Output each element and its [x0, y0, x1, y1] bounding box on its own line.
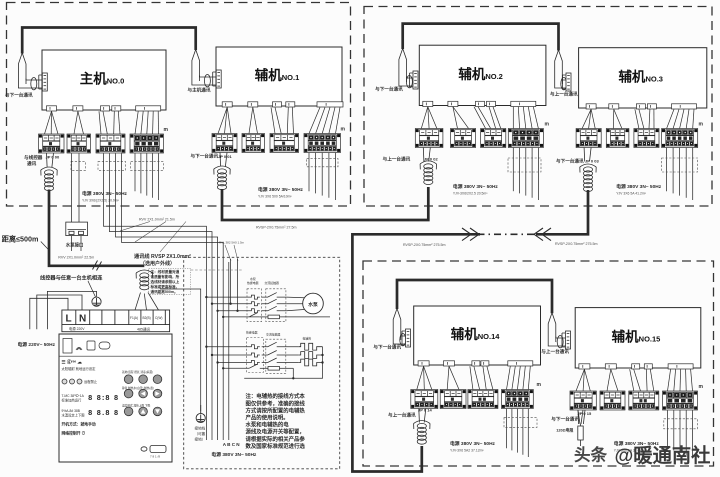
wire loop of NO.0 — [31, 78, 37, 90]
svg-text:m: m — [537, 382, 542, 388]
svg-text:RVV 2X1.0mm² 21.5m: RVV 2X1.0mm² 21.5m — [139, 217, 175, 221]
wires to power block of NO.2 — [512, 107, 514, 129]
stub connector 5 of NO.3 — [672, 104, 697, 109]
terminal block TB1 of NO.3 — [576, 129, 601, 148]
comm plug of NO.14 — [402, 329, 411, 347]
cable funnel of NO.15 — [548, 313, 556, 342]
comm block tail wires of NO.15 — [578, 410, 585, 424]
svg-text:请根据实际的相关产品参: 请根据实际的相关产品参 — [246, 435, 306, 443]
comm pair wire b of NO.3 — [562, 79, 566, 81]
stub connector 2 of NO.0 — [73, 106, 83, 111]
stub connector 1 of NO.14 — [418, 361, 429, 366]
svg-text:YJV-3X6 5A2 37.12m²: YJV-3X6 5A2 37.12m² — [450, 448, 484, 452]
terminal block TB2 of NO.2 — [451, 129, 476, 148]
svg-text:JP 0 01: JP 0 01 — [218, 154, 232, 159]
svg-text:水泵: 水泵 — [307, 301, 318, 308]
svg-text:方式请按所配置的电辅热: 方式请按所配置的电辅热 — [246, 406, 306, 414]
terminal block TB1 of NO.2 — [415, 129, 443, 148]
svg-text:L: L — [66, 314, 72, 325]
comm pair wire b of NO.0 — [26, 79, 42, 81]
terminal block TB3 of NO.1 — [270, 134, 299, 153]
fan-out wires to comm block of NO.14 — [417, 366, 424, 389]
wires to block3 of NO.3 — [635, 109, 639, 128]
controller terminal strip — [62, 310, 170, 332]
terminal block TB1 of NO.1 — [212, 134, 237, 153]
comm pair wire a of NO.3 — [555, 84, 566, 88]
svg-text:120Ω电阻: 120Ω电阻 — [556, 427, 573, 432]
svg-text:接地线: 接地线 — [195, 426, 206, 431]
svg-text:JP 0 15: JP 0 15 — [578, 411, 592, 416]
stub connector 3 of NO.0 — [101, 106, 110, 111]
svg-text:与下一台通讯: 与下一台通讯 — [551, 416, 579, 423]
shielded cable coil of NO.2 — [420, 161, 436, 185]
pass-through under NO.3 TB4 — [662, 158, 698, 172]
pump motor circle — [303, 293, 324, 314]
controller supply wire PE — [47, 291, 96, 329]
terminal block TB3 of NO.14 — [468, 390, 498, 409]
svg-text:网络控制开 ⊙: 网络控制开 ⊙ — [62, 430, 86, 435]
terminal block TB3 of NO.15 — [629, 391, 659, 410]
svg-text:电源 380V 3N~ 50Hz: 电源 380V 3N~ 50Hz — [453, 183, 499, 190]
stub connector 1 of NO.3 — [586, 104, 596, 109]
svg-text:B2(B): B2(B) — [143, 316, 151, 320]
fan-out wires to comm block of NO.2 — [421, 107, 428, 129]
svg-text:7 8 1 /8: 7 8 1 /8 — [150, 455, 160, 459]
fan-out wires to block2 of NO.2 — [453, 107, 458, 129]
controller display windows — [59, 339, 172, 357]
svg-text:水泵: 水泵 — [250, 276, 256, 281]
stub connector 3 of NO.15 — [632, 364, 640, 369]
svg-text:就地/远程 增氧 消毒(杀菌): 就地/远程 增氧 消毒(杀菌) — [122, 370, 153, 374]
svg-text:温度模式 加热上限 下限: 温度模式 加热上限 下限 — [122, 404, 151, 408]
arrow down glyph — [155, 409, 160, 413]
stub connector 4 of NO.2 — [487, 101, 496, 106]
comm block tail wires of NO.3 — [584, 148, 591, 162]
svg-text:RVSP-2X0.75mm² 275.5m: RVSP-2X0.75mm² 275.5m — [555, 242, 597, 246]
fan-out wires to block2 of NO.3 — [612, 109, 615, 128]
comm block tail wires of NO.0 — [47, 153, 54, 167]
thermal elements heater — [249, 345, 260, 369]
svg-text:8 8.8 8: 8 8.8 8 — [88, 410, 118, 418]
svg-text:F1(A): F1(A) — [130, 316, 138, 320]
cabinet bus wire v6 — [228, 262, 230, 440]
unit NO.1 box — [216, 47, 342, 106]
terminal block TB4 of NO.14 — [502, 390, 534, 409]
svg-text:电源 220V~ 50Hz: 电源 220V~ 50Hz — [18, 341, 56, 348]
fan-out wires to block2 of NO.0 — [74, 111, 78, 134]
svg-text:远程禁止: 远程禁止 — [84, 379, 98, 384]
wire loop of NO.14 — [400, 334, 406, 346]
contactor coil resistor (pump) — [260, 315, 330, 319]
svg-text:JP 0 03: JP 0 03 — [585, 159, 599, 164]
terminal block TB1 of NO.0 — [39, 134, 65, 153]
comm plug of NO.0 — [39, 73, 48, 91]
wires to power block of NO.1 — [309, 107, 320, 133]
junction dots pump rows — [205, 296, 239, 318]
svg-text:通讯距离500m。: 通讯距离500m。 — [151, 289, 178, 294]
pass-through under NO.0 TB2 — [71, 162, 85, 171]
svg-text:JP 0 00: JP 0 00 — [46, 155, 60, 160]
wires contactor to pump — [287, 297, 304, 311]
unit NO.0 box — [42, 50, 166, 110]
wires to block3 of NO.14 — [470, 366, 473, 389]
shielded cable coil of NO.0 — [41, 167, 57, 191]
terminal block TB2 of NO.1 — [242, 134, 265, 153]
stub connector 4 of NO.14 — [481, 361, 489, 366]
svg-text:与上一台通讯: 与上一台通讯 — [383, 156, 411, 163]
comm trunk wire — [22, 28, 196, 54]
power feed wires of NO.3 — [667, 148, 693, 200]
comm block tail wires of NO.1 — [220, 153, 227, 167]
terminal block TB2 of NO.3 — [606, 129, 629, 148]
svg-text:讯质量有影响，所: 讯质量有影响，所 — [151, 274, 180, 279]
comm pair wire b of NO.1 — [200, 76, 217, 78]
shielded cable coil of NO.14 — [414, 421, 430, 445]
svg-text:交流接触器: 交流接触器 — [265, 280, 280, 285]
stub connector 3 of NO.14 — [472, 361, 480, 366]
comm pair wire b of NO.14 — [401, 335, 406, 337]
terminal block TB4 of NO.15 — [663, 391, 698, 410]
wires to block3 of NO.0 — [99, 111, 101, 134]
fan-out wires to comm block of NO.15 — [576, 369, 584, 391]
svg-text:9%A-8# 38B: 9%A-8# 38B — [62, 409, 81, 413]
svg-text:JP 0 14: JP 0 14 — [418, 408, 432, 413]
fan-out wires to block2 of NO.1 — [249, 107, 253, 133]
comm trunk break (dash-dot) — [480, 233, 534, 235]
heater elements (comb) — [299, 343, 323, 366]
comm plug of NO.3 — [563, 73, 572, 91]
svg-text:与线控器: 与线控器 — [24, 154, 43, 161]
pass-through under NO.0 TB3 — [98, 162, 126, 171]
terminal block TB4 of NO.1 — [304, 134, 341, 153]
fan-out wires to comm block of NO.3 — [582, 109, 591, 128]
svg-text:@暖通南社: @暖通南社 — [615, 444, 711, 467]
terminal block TB3 of NO.0 — [96, 134, 125, 153]
thermal relay box (heater) dashed — [247, 338, 264, 373]
svg-text:m: m — [699, 384, 704, 390]
cable funnel of NO.14 — [393, 309, 401, 341]
comm block tail wires of NO.14 — [419, 409, 426, 423]
comm trunk wire — [352, 234, 480, 471]
controller supply wire N — [37, 295, 82, 329]
heater right bus — [244, 347, 322, 379]
junction dots heater rows — [205, 346, 224, 370]
svg-text:水泵和电辅热的电: 水泵和电辅热的电 — [246, 421, 290, 429]
svg-text:太阳辐射 就地运行设定: 太阳辐射 就地运行设定 — [62, 366, 97, 371]
svg-text:交流接触器: 交流接触器 — [266, 332, 281, 337]
AC contactor box (heater) dashed — [266, 339, 286, 373]
controller power oval — [141, 446, 166, 453]
svg-text:通讯: 通讯 — [27, 160, 37, 167]
terminal block TB3 of NO.2 — [481, 129, 506, 148]
pump interface leads down — [72, 236, 82, 251]
svg-text:与主机通讯: 与主机通讯 — [188, 87, 211, 94]
comm pair wire b of NO.15 — [556, 337, 566, 339]
leader to trunk — [41, 242, 49, 251]
unit NO.3 box — [579, 48, 707, 108]
comm pair wire a of NO.1 — [192, 81, 216, 85]
comm plug of NO.15 — [562, 331, 571, 349]
svg-text:图仅供参考，准确的接线: 图仅供参考，准确的接线 — [246, 399, 306, 407]
junction dots heater bus — [292, 354, 324, 380]
svg-text:电源 380V 3N~ 50Hz: 电源 380V 3N~ 50Hz — [450, 440, 496, 447]
terminal block TB2 of NO.14 — [440, 390, 466, 409]
relay cabinet box (dotted) — [184, 257, 340, 469]
svg-text:接地）: 接地） — [195, 436, 206, 441]
comm pair wire a of NO.15 — [548, 342, 565, 346]
arrow left glyph — [141, 391, 145, 396]
cable funnel of NO.2 — [399, 49, 407, 83]
svg-text:静音 制热水(白天) 制热(夜): 静音 制热水(白天) 制热(夜) — [122, 386, 154, 390]
svg-text:（可靠: （可靠 — [195, 431, 206, 436]
leader to ground — [88, 281, 96, 297]
power feed wires of NO.15 — [668, 410, 693, 457]
svg-text:与上一台通讯: 与上一台通讯 — [541, 348, 569, 355]
pass-through under NO.2 TB4 — [508, 158, 541, 172]
stub connector 1 of NO.15 — [579, 364, 590, 369]
power feed wires of NO.2 — [513, 148, 538, 200]
stub connector 2 of NO.2 — [448, 101, 458, 106]
cabinet ground symbol — [196, 405, 205, 423]
controller small circles row — [62, 379, 82, 384]
svg-text:m: m — [545, 122, 550, 128]
wire loop of NO.3 — [561, 78, 567, 90]
stub connector 4 of NO.15 — [644, 364, 652, 369]
svg-text:与上一台通讯: 与上一台通讯 — [388, 411, 416, 418]
controller buttons row2 — [124, 389, 162, 398]
svg-text:距离≤500m: 距离≤500m — [2, 235, 39, 244]
leaders RVL — [225, 245, 238, 261]
svg-text:电源 380V 3N~ 50Hz: 电源 380V 3N~ 50Hz — [211, 451, 257, 458]
svg-text:电源 380V 3N~ 50Hz: 电源 380V 3N~ 50Hz — [82, 190, 128, 197]
svg-text:YJV 3X6 5A 41.2m²: YJV 3X6 5A 41.2m² — [616, 191, 646, 195]
cable funnel of NO.0 — [18, 53, 26, 84]
controller comm fan wires — [135, 293, 159, 311]
svg-text:数及国家标准规范进行选: 数及国家标准规范进行选 — [246, 442, 306, 450]
svg-text:N: N — [79, 314, 86, 325]
svg-text:与上一台通讯: 与上一台通讯 — [550, 91, 578, 98]
svg-text:485通讯: 485通讯 — [137, 326, 151, 331]
arrow right glyph — [155, 391, 159, 396]
svg-text:与下一台通讯: 与下一台通讯 — [5, 92, 33, 99]
relay feeders from pump interface — [231, 259, 238, 311]
pass-through under NO.15 TB4 — [664, 419, 698, 429]
wires to power block of NO.3 — [667, 109, 674, 128]
terminal block TB2 of NO.0 — [67, 134, 91, 153]
wire loop of NO.15 — [557, 336, 563, 348]
terminal block TB4 of NO.3 — [662, 129, 698, 148]
stub connector 3 of NO.3 — [636, 104, 645, 109]
svg-text:标准或更高标准，: 标准或更高标准， — [150, 284, 180, 289]
wires to power block of NO.15 — [668, 369, 671, 391]
comm trunk wire — [49, 190, 144, 266]
stub connector 2 of NO.3 — [609, 104, 619, 109]
break arrows << — [534, 228, 551, 241]
svg-text:通讯线 RVSP 2X1.0mm²: 通讯线 RVSP 2X1.0mm² — [134, 252, 191, 260]
svg-text:源线及电源开关等配置，: 源线及电源开关等配置， — [246, 428, 305, 436]
comm trunk wire — [403, 24, 559, 51]
svg-text:C(W): C(W) — [155, 316, 162, 320]
pump interface box — [66, 222, 88, 236]
stub connector 4 of NO.0 — [112, 106, 121, 111]
svg-text:YJV 3X6 500 5A/10m²: YJV 3X6 500 5A/10m² — [258, 194, 292, 198]
power feed wires of NO.14 — [507, 409, 529, 457]
pass-through under NO.0 TB4 — [131, 162, 164, 171]
unit NO.15 box — [575, 308, 701, 368]
leader lines of control cable label — [120, 222, 186, 253]
comm trunk wire — [222, 187, 428, 220]
comm block tail wires of NO.2 — [423, 148, 430, 162]
svg-text:注：线材质量对通: 注：线材质量对通 — [151, 269, 180, 274]
break arrows >> — [462, 228, 479, 241]
svg-text:水温设定上下限: 水温设定上下限 — [62, 413, 86, 418]
svg-text:A B C N: A B C N — [223, 442, 241, 447]
heater feed rows — [206, 347, 249, 369]
cable funnel of NO.1 — [192, 50, 200, 82]
cabinet bus wire v1 (PE) — [160, 289, 201, 411]
wire loop of NO.2 — [406, 76, 412, 88]
terminal block TB4 of NO.2 — [508, 129, 543, 148]
svg-text:☰ ⓖʳᵉᵉ ☁: ☰ ⓖʳᵉᵉ ☁ — [62, 359, 83, 366]
fan-out wires to comm block of NO.0 — [45, 111, 52, 134]
comm plug of NO.2 — [410, 71, 419, 89]
stub connector 2 of NO.1 — [248, 102, 258, 107]
svg-text:RVSP-2X0.75mm² 27.5m: RVSP-2X0.75mm² 27.5m — [256, 226, 296, 230]
comm pair wire a of NO.2 — [399, 82, 413, 86]
controller buttons row1 — [124, 375, 162, 384]
AC contactor box (pump) dashed — [266, 289, 286, 322]
comm trunk wire — [536, 190, 588, 234]
svg-text:产品的使用说明。: 产品的使用说明。 — [246, 414, 289, 422]
comm pair wire b of NO.2 — [407, 77, 414, 79]
terminal block TB1 of NO.15 — [570, 391, 596, 410]
terminal block TB1 of NO.14 — [411, 390, 438, 409]
svg-text:电源 220V: 电源 220V — [69, 326, 85, 331]
wires to power block of NO.14 — [507, 366, 511, 389]
controller comm coil — [136, 270, 152, 290]
svg-text:热继电器: 热继电器 — [246, 330, 258, 335]
svg-text:m: m — [341, 127, 346, 133]
stub connector 1 of NO.1 — [222, 102, 232, 107]
stub connector 5 of NO.14 — [508, 361, 533, 366]
svg-text:注：电辅热的接线方式本: 注：电辅热的接线方式本 — [246, 392, 306, 400]
stub connector 5 of NO.15 — [668, 364, 693, 369]
controller main box — [59, 334, 172, 462]
controller buttons row3 — [124, 407, 162, 416]
fan-out wires to comm block of NO.1 — [218, 107, 227, 133]
comm pair wire a of NO.14 — [393, 340, 405, 344]
comm pair wire a of NO.0 — [18, 84, 42, 88]
svg-text:选线材请参照以上: 选线材请参照以上 — [151, 279, 180, 284]
pass-through under NO.1 TB4 — [307, 159, 338, 167]
stub connector 4 of NO.3 — [647, 104, 656, 109]
note leader dotted — [191, 269, 243, 271]
stub connector 1 of NO.2 — [423, 101, 433, 106]
svg-text:与下一台通讯: 与下一台通讯 — [373, 344, 401, 351]
svg-text:RVV 2X1.0mm² 22.5m: RVV 2X1.0mm² 22.5m — [58, 255, 94, 259]
wires to block3 of NO.15 — [630, 369, 634, 391]
svg-text:头条: 头条 — [574, 445, 608, 465]
svg-text:m: m — [699, 122, 704, 128]
contactor blades heater — [262, 342, 299, 362]
svg-text:（选用户外线）: （选用户外线） — [140, 260, 175, 267]
wires to block3 of NO.2 — [474, 107, 486, 129]
stub connector 5 of NO.2 — [511, 101, 536, 106]
stub connector 1 of NO.0 — [47, 106, 57, 111]
power feed wires of NO.1 — [309, 153, 336, 200]
stub connector 2 of NO.14 — [444, 361, 455, 366]
contactor coil resistor (heater) — [260, 367, 294, 371]
stub connector 3 of NO.2 — [476, 101, 485, 106]
svg-text:T-MC 38℃+1A: T-MC 38℃+1A — [62, 394, 85, 398]
svg-text:8 8:8 8: 8 8:8 8 — [88, 395, 118, 403]
stub connector 3 of NO.1 — [273, 102, 282, 107]
comm plug of NO.1 — [213, 70, 222, 88]
unit NO.2 box — [419, 45, 546, 105]
shielded cable coil of NO.1 — [214, 166, 230, 190]
pass-through under NO.14 TB4 — [504, 418, 537, 428]
svg-text:m: m — [164, 127, 169, 133]
stub connector 2 of NO.15 — [605, 364, 616, 369]
wire loop of NO.1 — [204, 75, 210, 87]
thermal relay box (pump) dashed — [247, 289, 262, 322]
fan-out wires to block2 of NO.15 — [607, 369, 611, 391]
svg-text:与下一台通讯: 与下一台通讯 — [556, 158, 584, 165]
shielded cable coil of NO.3 — [580, 164, 596, 192]
ground symbol at controller — [92, 297, 101, 306]
unit NO.14 box — [414, 306, 541, 365]
fan-out wires to block2 of NO.14 — [447, 366, 449, 389]
resistor 120ohm terminator — [578, 410, 583, 446]
svg-text:RVSP-2X0.75mm² 275.5m: RVSP-2X0.75mm² 275.5m — [403, 243, 445, 247]
svg-text:电源 380V 3N~ 50Hz: 电源 380V 3N~ 50Hz — [616, 183, 662, 190]
svg-text:与下一台通讯: 与下一台通讯 — [191, 153, 219, 160]
terminal block TB3 of NO.3 — [634, 129, 659, 148]
cable funnel of NO.3 — [555, 50, 563, 84]
controller supply wire L — [30, 298, 68, 329]
svg-text:YJV 3X6/(2X2.5) 20.9m²: YJV 3X6/(2X2.5) 20.9m² — [82, 198, 120, 202]
group box: units 2-3 (dashed) — [364, 7, 712, 207]
svg-text:电源 380V 3N~ 50Hz: 电源 380V 3N~ 50Hz — [258, 186, 304, 193]
terminal block TB4 of NO.0 — [130, 134, 164, 153]
stub connector 4 of NO.1 — [286, 102, 295, 107]
svg-text:开机方式：就地手动: 开机方式：就地手动 — [62, 421, 96, 426]
svg-text:电辅热: 电辅热 — [303, 336, 312, 341]
stub connector 5 of NO.1 — [317, 102, 343, 107]
thermal elements pump — [249, 295, 260, 317]
stub connector 5 of NO.0 — [136, 106, 161, 111]
power feed wires of NO.0 — [135, 153, 159, 200]
control wires NO.0 TB3 to relay cabinet — [104, 153, 224, 440]
svg-text:YJV-3X6/2X2.5 20.5m²: YJV-3X6/2X2.5 20.5m² — [453, 191, 488, 195]
group box: units 14-15 (dashed) — [363, 261, 714, 466]
svg-text:线控器与任意一台主机相连: 线控器与任意一台主机相连 — [40, 274, 103, 282]
cable break marks on controller trunk — [93, 261, 102, 271]
wires to block3 of NO.1 — [271, 107, 275, 133]
svg-text:与下一台通讯: 与下一台通讯 — [375, 86, 403, 93]
wires to power block of NO.0 — [135, 111, 138, 134]
terminal block TB2 of NO.15 — [600, 391, 625, 410]
svg-text:标准加热运行: 标准加热运行 — [62, 398, 82, 403]
note dotted frame — [149, 268, 191, 294]
pump feed rows — [206, 297, 249, 317]
comm trunk wire — [397, 280, 552, 313]
pump interface wires from NO.0 TB2 — [72, 153, 80, 222]
group box: units 0-1 (dashed) — [7, 3, 351, 207]
svg-text:水泵接口: 水泵接口 — [65, 242, 84, 249]
arrow up glyph — [141, 409, 146, 413]
contactor blades pump — [262, 293, 287, 311]
